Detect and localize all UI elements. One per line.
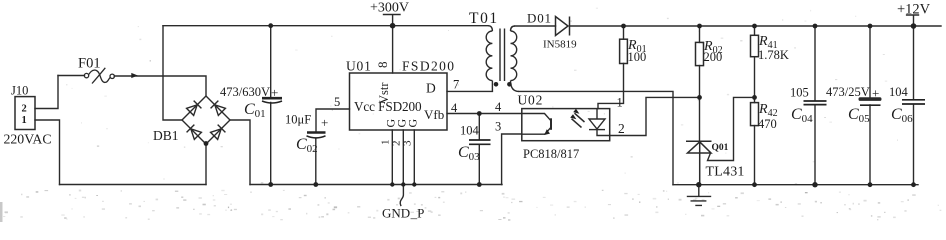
diode DB1 bottom-left	[187, 125, 202, 140]
svg-text:U01: U01	[346, 59, 372, 74]
svg-text:C06: C06	[891, 106, 913, 125]
svg-text:IN5819: IN5819	[543, 39, 577, 51]
svg-text:470: 470	[758, 117, 777, 131]
svg-text:7: 7	[453, 78, 459, 92]
node R42 bottom / secondary gnd rail	[752, 182, 757, 187]
light arrows	[572, 113, 585, 127]
connector J10	[15, 97, 35, 130]
node U01 pin1 / primary gnd rail	[390, 182, 394, 186]
capacitor C01	[262, 98, 282, 103]
svg-text:FSD200: FSD200	[402, 59, 455, 74]
resistor R02	[696, 42, 704, 65]
node TL431 anode / secondary gnd rail	[696, 182, 701, 187]
svg-text:+12V: +12V	[897, 2, 931, 18]
wire U02 pin2 to R02 bottom node	[597, 97, 700, 135]
phototransistor	[522, 114, 551, 121]
svg-text:D: D	[426, 81, 436, 96]
diode DB1 top-right	[211, 101, 226, 116]
node U01 pin3 / primary gnd rail	[412, 182, 416, 186]
resistor R42	[751, 103, 759, 126]
node C05 top / +12V rail	[868, 24, 873, 29]
svg-text:+: +	[271, 85, 278, 100]
node U01 pin8 / +300V rail	[390, 23, 396, 29]
wire DB1 right corner down	[230, 120, 250, 185]
node R02 bottom / TL431 cathode / U02 pin2	[697, 95, 702, 100]
svg-text:3: 3	[402, 140, 414, 146]
svg-text:C03: C03	[458, 144, 480, 163]
phase dot secondary	[507, 82, 512, 87]
resistor R01	[620, 39, 628, 63]
svg-text:TL431: TL431	[706, 165, 745, 180]
svg-text:G: G	[406, 119, 420, 128]
wire U01 pin7 to transformer	[447, 90, 492, 92]
svg-text:105: 105	[790, 86, 809, 100]
node +300V flag	[384, 15, 401, 26]
wire C06 column	[913, 26, 915, 185]
core	[500, 29, 505, 82]
wire U02 pin3	[502, 134, 522, 185]
node R01 top / +12V rail	[621, 24, 626, 29]
bridge rectifier DB1	[182, 96, 230, 144]
svg-text:2: 2	[618, 121, 625, 136]
capacitor C05 electrolytic	[859, 97, 882, 105]
wire C04 column	[814, 26, 816, 185]
node C06 bottom / secondary gnd rail	[911, 182, 916, 187]
wire C02 column and pin5	[316, 109, 350, 185]
wire DB1 bottom corner down	[205, 144, 207, 185]
node R41 top / +12V rail	[752, 24, 757, 29]
svg-text:4: 4	[495, 100, 502, 114]
wire TL431 cathode	[699, 97, 701, 141]
wire D01 cathode rail to +12V	[571, 25, 942, 27]
wire R01 leads and U02 pin1	[598, 26, 624, 109]
led	[589, 119, 605, 129]
node C04 bottom / secondary gnd rail	[812, 182, 817, 187]
phase dot primary	[494, 82, 499, 87]
svg-text:C02: C02	[296, 136, 318, 155]
node C03 top / Vfb wire	[477, 111, 482, 116]
wire secondary top to D01	[515, 25, 556, 27]
node +12V flag	[907, 15, 919, 26]
wire primary bottom rail B	[250, 184, 502, 186]
resistor R41	[751, 35, 759, 56]
wire U01 pin4 to U02 pin4	[447, 113, 522, 115]
svg-text:+: +	[872, 86, 879, 101]
node C01 / +300V rail	[268, 23, 273, 28]
node C04 top / +12V rail	[813, 24, 818, 29]
wire R41 leads	[754, 26, 756, 97]
capacitor C03	[469, 140, 491, 144]
svg-text:1.78K: 1.78K	[758, 48, 789, 62]
svg-text:100: 100	[628, 50, 647, 64]
svg-text:T01: T01	[469, 10, 499, 27]
svg-text:GND_P: GND_P	[382, 206, 424, 221]
ground symbol secondary	[688, 185, 711, 206]
IC U01 FSD200	[350, 73, 448, 130]
wire fuse line to DB1 top corner	[58, 76, 206, 97]
fuse F01	[84, 68, 114, 84]
svg-text:J10: J10	[11, 84, 28, 98]
svg-text:C01: C01	[244, 101, 266, 120]
wire TL431 ref to divider	[708, 97, 755, 160]
svg-text:4: 4	[451, 101, 458, 115]
node U01 pin2 / primary gnd rail	[401, 182, 405, 186]
wire C05 column	[869, 26, 871, 185]
capacitor C06	[902, 100, 925, 104]
svg-text:Vfb: Vfb	[424, 107, 444, 122]
svg-text:104: 104	[460, 124, 480, 138]
capacitor C02	[307, 133, 326, 138]
svg-text:C05: C05	[848, 106, 870, 125]
wire primary bottom rail A	[60, 184, 207, 186]
secondary winding	[511, 26, 516, 31]
optocoupler U02 PC818/817	[522, 109, 610, 141]
wire J10 pin1 down	[35, 120, 60, 185]
wire top-left +300V rail	[163, 25, 488, 27]
diode DB1 bottom-right	[210, 125, 225, 140]
svg-text:200: 200	[704, 50, 723, 64]
svg-text:8: 8	[375, 62, 390, 69]
wire secondary bottom rail	[673, 184, 918, 186]
svg-text:PC818/817: PC818/817	[523, 147, 579, 161]
node GND_P leader	[400, 185, 403, 206]
svg-text:DB1: DB1	[153, 128, 179, 143]
node C02 bottom / primary gnd rail	[313, 182, 318, 187]
svg-text:+300V: +300V	[370, 1, 409, 16]
wire secondary return	[519, 91, 673, 184]
svg-text:3: 3	[495, 120, 501, 134]
wire R42 leads	[754, 97, 756, 184]
svg-text:U02: U02	[518, 93, 544, 108]
svg-text:Q01: Q01	[712, 143, 729, 153]
svg-text:2: 2	[22, 104, 27, 115]
node DB1 bottom corner	[204, 141, 209, 146]
wire R02 leads	[699, 26, 701, 97]
wire C03 column	[478, 114, 480, 185]
transformer T01	[486, 26, 519, 92]
svg-text:104: 104	[889, 85, 909, 99]
svg-text:D01: D01	[527, 11, 552, 26]
svg-text:C04: C04	[791, 106, 813, 125]
shunt regulator TL431	[686, 141, 712, 184]
wire J10 pin2 to fuse	[35, 76, 58, 109]
node R41-R42 divider / TL431 ref	[752, 95, 757, 100]
svg-text:473/25V: 473/25V	[826, 85, 870, 99]
left edge scan smudge	[0, 202, 3, 222]
primary winding	[488, 26, 492, 31]
node C05 bottom / secondary gnd rail	[868, 182, 873, 187]
svg-text:1: 1	[617, 96, 623, 110]
svg-text:F01: F01	[78, 56, 101, 72]
diode DB1 top-left	[186, 101, 201, 116]
junction diamond on fuse output wire	[131, 73, 138, 78]
svg-text:1: 1	[22, 115, 27, 126]
svg-text:5: 5	[334, 95, 340, 109]
svg-text:473/630V: 473/630V	[220, 85, 270, 99]
node C01 bottom / primary gnd rail	[268, 182, 273, 187]
node C06 top / +12V flag	[911, 23, 917, 29]
node R02 top / +12V rail	[697, 24, 702, 29]
wire U01 pin8	[392, 26, 394, 73]
diode D01 IN5819	[556, 17, 570, 36]
node C03 bottom / primary gnd rail	[477, 182, 482, 187]
capacitor C04	[804, 101, 827, 105]
svg-text:220VAC: 220VAC	[4, 131, 52, 146]
wire left vertical from rail to DB1 left corner	[163, 26, 182, 120]
wire C01 column	[270, 26, 272, 185]
wire U01 ground pins 1,2,3	[392, 130, 414, 185]
svg-text:Vcc FSD200: Vcc FSD200	[354, 99, 422, 114]
svg-text:+: +	[321, 115, 328, 130]
svg-text:10μF: 10μF	[285, 113, 311, 127]
